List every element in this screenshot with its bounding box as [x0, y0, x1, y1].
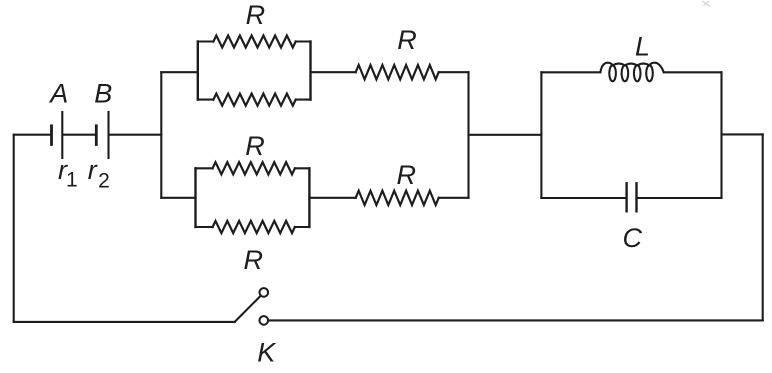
- wire to bottom parallel box: [161, 197, 195, 199]
- switch K: [235, 288, 268, 325]
- capacitor C: [627, 183, 637, 211]
- svg-text:R: R: [244, 245, 264, 275]
- wire bottom box bottom-right: [295, 226, 310, 228]
- wire LC bottom-left: [541, 197, 625, 199]
- wire right middle rail: [467, 72, 469, 198]
- svg-text:C: C: [622, 223, 642, 253]
- battery B: [96, 112, 108, 158]
- battery A: [52, 112, 63, 158]
- wire junction rail left: [160, 72, 162, 198]
- node top box right rail: [309, 42, 311, 100]
- wire LC output: [722, 133, 763, 135]
- svg-text:R: R: [397, 25, 417, 55]
- resistor R (series, bottom branch): [356, 191, 439, 205]
- node LC box left rail: [540, 72, 542, 198]
- wire bottom box bottom-left: [196, 226, 213, 228]
- resistor R (bottom box, lower): [213, 221, 295, 233]
- node bottom box left rail: [194, 168, 196, 227]
- svg-text:K: K: [257, 337, 276, 367]
- wire middle rail to LC box: [469, 134, 542, 136]
- svg-text:1: 1: [66, 169, 78, 192]
- svg-text:A: A: [48, 78, 68, 108]
- faint cropped artifact top-right: [702, 1, 710, 6]
- wire top box top-left: [198, 40, 214, 42]
- wire right vertical: [762, 134, 764, 320]
- node top box left rail: [197, 42, 199, 100]
- wire bottom left: [14, 321, 235, 323]
- wire bottom right: [269, 319, 763, 321]
- svg-text:2: 2: [98, 170, 110, 193]
- wire series R to right rail (top): [439, 71, 469, 73]
- wire series R to right rail (bottom): [439, 197, 469, 199]
- svg-text:B: B: [94, 78, 112, 108]
- wire top box bottom-left: [198, 99, 214, 101]
- resistor R (series, top branch): [356, 65, 439, 79]
- wire bottom box top-left: [196, 167, 213, 169]
- inductor L: [600, 63, 663, 82]
- wire to top parallel box: [161, 71, 198, 73]
- svg-text:R: R: [397, 160, 417, 190]
- resistor R (top box, upper): [213, 36, 295, 48]
- wire top box to series R: [311, 71, 356, 73]
- wire bottom box to series R: [309, 197, 355, 199]
- wire bottom box top-right: [295, 167, 310, 169]
- svg-text:r: r: [88, 155, 98, 185]
- resistor (top box, lower): [213, 94, 295, 106]
- wire LC top-right: [664, 71, 722, 73]
- svg-text:R: R: [246, 0, 266, 30]
- svg-text:R: R: [245, 131, 265, 161]
- wire LC top-left: [541, 71, 600, 73]
- wire between batteries: [64, 134, 95, 136]
- wire battery segment left: [14, 134, 50, 136]
- node LC box right rail: [720, 72, 722, 198]
- svg-text:L: L: [635, 32, 650, 62]
- wire top box top-right: [296, 40, 311, 42]
- wire left vertical: [13, 135, 15, 322]
- resistor R (bottom box, upper): [213, 162, 295, 174]
- wire LC bottom-right: [638, 197, 722, 199]
- wire battery to junction: [110, 134, 162, 136]
- node bottom box right rail: [308, 168, 310, 227]
- wire top box bottom-right: [296, 99, 311, 101]
